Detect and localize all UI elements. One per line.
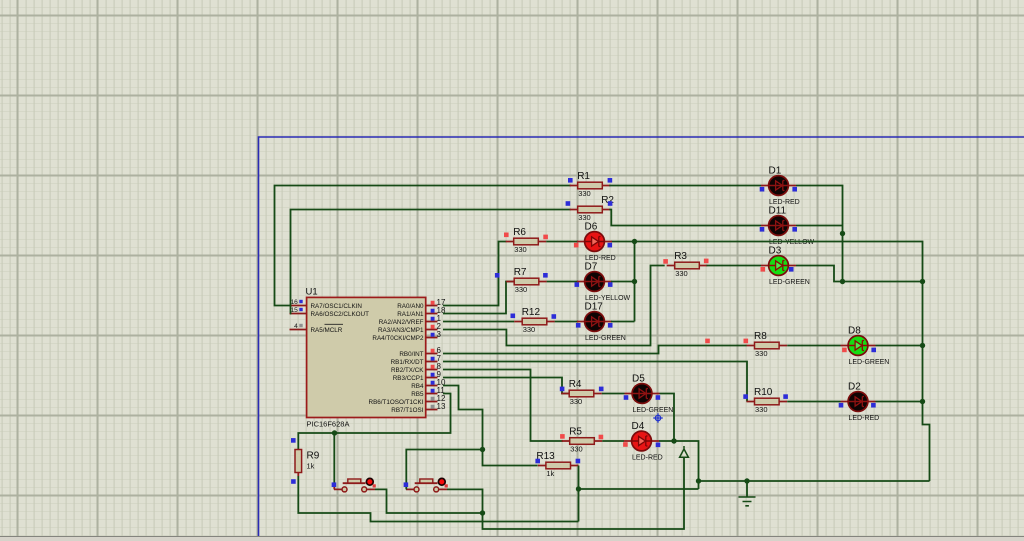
LED D4 (LED-RED)	[624, 421, 663, 462]
svg-text:RB3/CCP1: RB3/CCP1	[393, 375, 424, 382]
svg-text:RA5/MCLR: RA5/MCLR	[311, 327, 343, 334]
resistor R13	[536, 451, 578, 478]
svg-text:3: 3	[437, 330, 442, 339]
svg-text:D3: D3	[769, 246, 782, 257]
wire R3 to D3	[707, 265, 762, 267]
LED D5 (LED-GREEN)	[625, 374, 674, 415]
svg-text:330: 330	[755, 405, 768, 414]
junction	[696, 478, 701, 483]
op-amp U1 body (PIC16F628A)	[306, 287, 426, 429]
right pin stubs, numbers, names of U1	[369, 298, 446, 414]
LED D17 (LED-GREEN)	[577, 302, 626, 343]
svg-text:1k: 1k	[546, 469, 554, 478]
wire R9 bottom to ground node	[298, 476, 578, 522]
wire R12 to D17	[555, 321, 578, 323]
junction	[632, 239, 637, 244]
LED D6 (LED-RED)	[577, 222, 616, 263]
wire R7 to D7	[547, 281, 578, 283]
junction	[480, 510, 485, 515]
junction	[744, 478, 749, 483]
resistor R3	[667, 251, 708, 278]
junction	[920, 279, 925, 284]
wire pin1 to R12	[443, 321, 514, 323]
origin marker	[653, 413, 663, 423]
junction	[632, 279, 637, 284]
svg-text:R5: R5	[569, 427, 582, 438]
wire pin18 to R7	[443, 282, 514, 314]
push button SW2	[406, 478, 448, 492]
junction	[576, 486, 581, 491]
svg-text:RB2/TX/CK: RB2/TX/CK	[391, 367, 424, 374]
wire D6 cathode rail right	[611, 242, 930, 482]
resistor R1	[570, 171, 611, 198]
svg-text:RA1/AN1: RA1/AN1	[397, 311, 424, 318]
resistor R4	[561, 379, 602, 406]
svg-text:330: 330	[514, 245, 527, 254]
wire D3 cathode to rail	[796, 266, 923, 282]
svg-text:R12: R12	[522, 307, 541, 318]
svg-text:RA0/AN0: RA0/AN0	[397, 303, 424, 310]
svg-text:330: 330	[755, 349, 768, 358]
svg-text:R1: R1	[577, 171, 590, 182]
wire pin7 to R10	[443, 362, 747, 402]
wire R4 to D5	[602, 393, 625, 395]
svg-text:D5: D5	[632, 374, 645, 385]
svg-text:LED-GREEN: LED-GREEN	[633, 407, 674, 414]
svg-text:RB6/T1OSO/T1CKI: RB6/T1OSO/T1CKI	[369, 399, 424, 406]
wire button1 left drop	[333, 485, 335, 489]
LED D7 (LED-YELLOW)	[577, 262, 631, 303]
svg-text:RA2/AN2/VREF: RA2/AN2/VREF	[379, 319, 424, 326]
wire pin6 to R8	[443, 346, 747, 354]
resistor R8	[747, 331, 788, 358]
push button SW1	[334, 478, 376, 492]
wire pin10 to R13	[443, 386, 538, 466]
wire pin9 to R4	[443, 378, 569, 394]
svg-text:4: 4	[294, 323, 298, 330]
antenna tag	[680, 446, 689, 457]
svg-text:D7: D7	[585, 262, 598, 273]
wire R2 to D11	[609, 210, 761, 226]
svg-text:RB4: RB4	[411, 383, 424, 390]
svg-text:13: 13	[437, 402, 446, 411]
resistor R9	[295, 449, 320, 476]
wire pin8 to R5	[443, 370, 563, 442]
wire R5 to D4	[602, 440, 624, 442]
svg-text:U1: U1	[306, 287, 318, 298]
junction	[840, 279, 845, 284]
junction	[671, 438, 676, 443]
wire button1 right to node	[375, 489, 483, 513]
svg-text:1k: 1k	[307, 462, 315, 471]
svg-text:D4: D4	[632, 421, 645, 432]
wire D4 cathode to ground rail	[659, 441, 699, 489]
LED D11 (LED-YELLOW)	[761, 206, 815, 247]
svg-text:RB7/T1OSI: RB7/T1OSI	[391, 407, 423, 414]
svg-text:D11: D11	[769, 206, 787, 217]
svg-text:RB5: RB5	[411, 391, 424, 398]
wire pin2 to R3	[443, 266, 665, 346]
LED D3 (LED-GREEN)	[761, 246, 810, 287]
left pin stubs, numbers, names of U1	[290, 299, 370, 334]
svg-text:330: 330	[578, 213, 591, 222]
svg-text:LED-RED: LED-RED	[849, 415, 880, 422]
sheet border frame	[259, 137, 1024, 536]
svg-text:R10: R10	[754, 387, 773, 398]
wire D7 cathode	[611, 281, 635, 283]
wire pin17 to R6	[443, 242, 506, 306]
wire D8 cathode	[876, 345, 923, 347]
svg-text:D8: D8	[848, 326, 861, 337]
svg-text:R7: R7	[514, 267, 527, 278]
LED D8 (LED-GREEN)	[841, 326, 890, 367]
wire R1 to D1	[609, 185, 761, 187]
junction	[920, 343, 925, 348]
svg-text:D6: D6	[585, 222, 598, 233]
svg-text:330: 330	[675, 269, 688, 278]
LED D2 (LED-RED)	[841, 382, 880, 423]
resistor R12	[514, 307, 555, 334]
wire R10 to D2	[787, 401, 840, 403]
junction	[480, 447, 485, 452]
svg-text:RA3/AN3/CMP1: RA3/AN3/CMP1	[378, 327, 424, 334]
svg-text:R8: R8	[754, 331, 767, 342]
svg-text:LED-GREEN: LED-GREEN	[849, 359, 890, 366]
svg-text:LED-GREEN: LED-GREEN	[769, 279, 810, 286]
resistor R10	[747, 387, 788, 414]
svg-text:330: 330	[570, 444, 583, 453]
junction	[332, 430, 337, 435]
wire pin16 to R1	[275, 186, 571, 306]
svg-text:R6: R6	[513, 227, 526, 238]
wire D1 cathode down	[796, 186, 843, 282]
svg-text:RA4/T0CKI/CMP2: RA4/T0CKI/CMP2	[372, 335, 424, 342]
wire R13 node to D4 node	[579, 488, 699, 490]
junction	[920, 399, 925, 404]
svg-text:RB1/RX/DT: RB1/RX/DT	[391, 359, 424, 366]
svg-text:LED-GREEN: LED-GREEN	[585, 335, 626, 342]
wire cathode column D6-D7-D17	[634, 242, 636, 322]
wire R8 to D8	[787, 345, 840, 347]
svg-text:330: 330	[515, 285, 528, 294]
wire button1 left up	[333, 433, 335, 485]
resistor R6	[506, 227, 547, 254]
svg-text:330: 330	[570, 397, 583, 406]
svg-text:R9: R9	[307, 451, 320, 462]
resistor R2	[570, 195, 615, 222]
wire D17 cathode	[611, 321, 635, 323]
wire D5 cathode down	[660, 394, 675, 442]
wire ground rail	[699, 480, 930, 482]
wire button2 left to node	[406, 450, 482, 490]
logic state indicator squares	[291, 178, 876, 487]
junction	[840, 231, 845, 236]
wire pin15 to R2	[290, 210, 571, 314]
svg-text:16: 16	[291, 299, 299, 306]
resistor R7	[506, 267, 547, 294]
resistor R5	[562, 427, 603, 454]
svg-text:D1: D1	[769, 166, 782, 177]
svg-text:330: 330	[523, 325, 536, 334]
wire D2 cathode	[876, 401, 923, 403]
svg-text:PIC16F628A: PIC16F628A	[307, 420, 350, 429]
svg-text:R4: R4	[569, 379, 582, 390]
svg-text:R3: R3	[674, 251, 687, 262]
wire D11 cathode to column	[796, 225, 843, 227]
wire button2 right to tag	[447, 458, 684, 530]
svg-text:D17: D17	[585, 302, 604, 313]
LED D1 (LED-RED)	[761, 166, 800, 207]
svg-text:RB0/INT: RB0/INT	[399, 351, 423, 358]
wire R13 right down	[578, 466, 580, 522]
svg-text:15: 15	[291, 307, 299, 314]
ground	[739, 481, 756, 506]
svg-text:D2: D2	[848, 382, 861, 393]
svg-text:LED-RED: LED-RED	[632, 455, 663, 462]
wire pin11 to R9	[298, 394, 450, 451]
svg-text:330: 330	[578, 189, 591, 198]
svg-text:RA6/OSC2/CLKOUT: RA6/OSC2/CLKOUT	[311, 311, 370, 318]
svg-text:RA7/OSC1/CLKIN: RA7/OSC1/CLKIN	[311, 303, 363, 310]
wire R6 to D6	[546, 241, 578, 243]
